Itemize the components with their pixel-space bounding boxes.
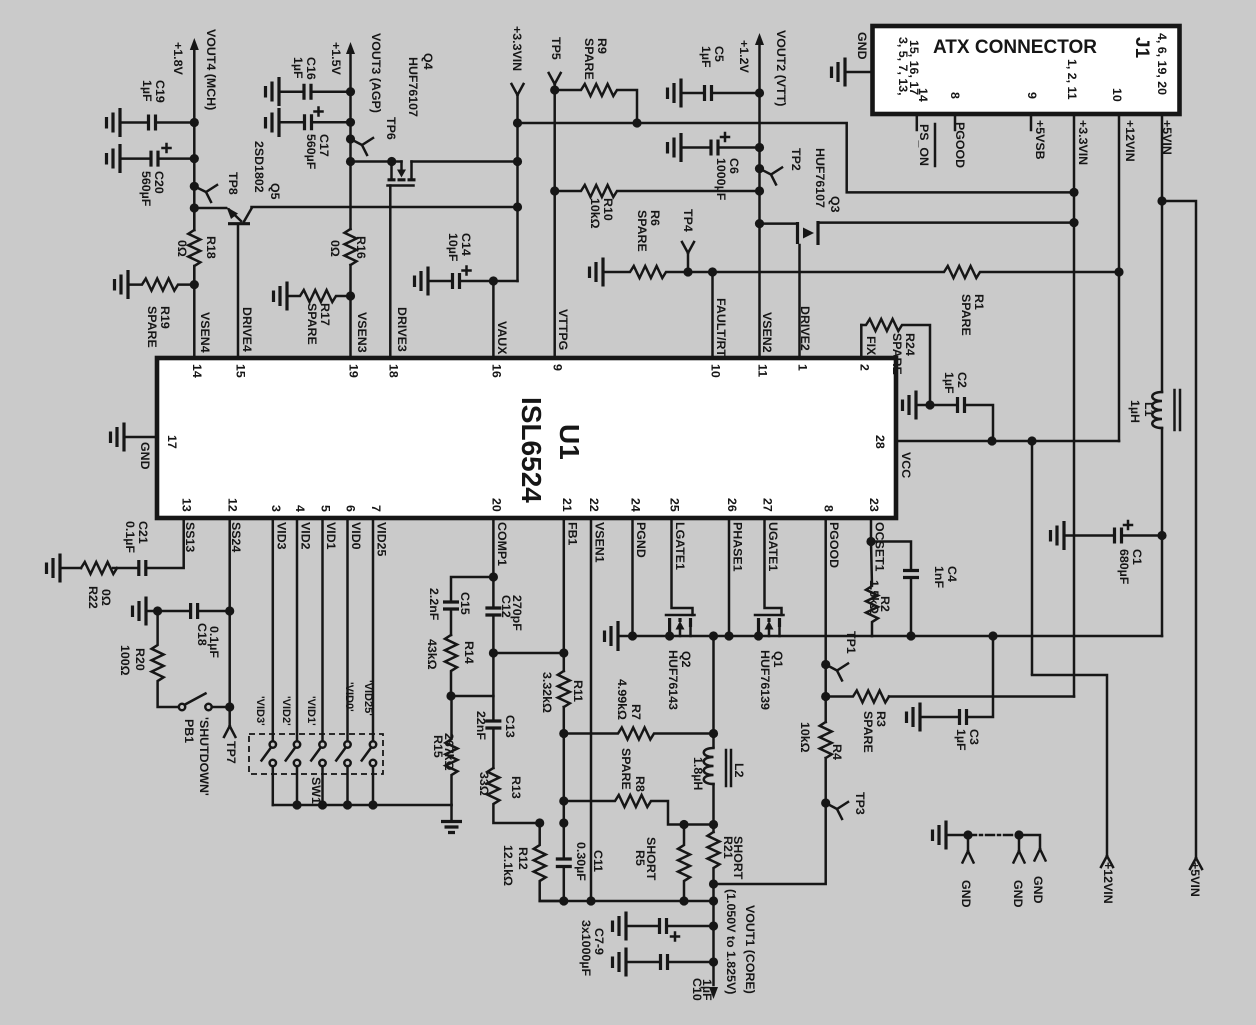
svg-text:VSEN1: VSEN1 (593, 522, 607, 563)
svg-text:R16: R16 (354, 236, 368, 259)
svg-text:VAUX: VAUX (495, 321, 509, 355)
connector GND pigtail 3 (1019, 835, 1046, 861)
svg-text:2.2nF: 2.2nF (427, 588, 441, 621)
svg-text:SS13: SS13 (183, 522, 197, 552)
svg-text:SHORT: SHORT (731, 836, 745, 880)
ground at C18 node (153, 606, 162, 615)
resistor R13 (487, 768, 539, 823)
svg-text:R8: R8 (633, 776, 647, 792)
ground at C14 (415, 267, 429, 296)
resistor R10 (550, 186, 559, 195)
wire +5VIN rail below L1 (1161, 428, 1164, 636)
svg-text:VOUT1 (CORE): VOUT1 (CORE) (743, 905, 757, 994)
svg-text:TP5: TP5 (549, 37, 563, 60)
ground at R22 (47, 554, 61, 583)
svg-text:Q3: Q3 (828, 196, 842, 213)
svg-text:VOUT3 (AGP): VOUT3 (AGP) (369, 33, 383, 113)
capacitor C2 (930, 404, 955, 407)
switch PB1 SHUTDOWN (179, 704, 185, 710)
capacitor C16 (279, 90, 302, 93)
ground at C17 (266, 108, 280, 137)
svg-text:C18: C18 (195, 623, 209, 646)
inductor L1 (1152, 390, 1180, 430)
wire PGOOD pin 8 net (714, 518, 826, 884)
svg-text:SW1: SW1 (309, 777, 323, 804)
svg-text:LGATE1: LGATE1 (673, 522, 687, 570)
svg-text:GND: GND (855, 32, 869, 60)
wire VCC pin 28 to +12VIN rail (896, 440, 1119, 443)
resistor R19 (128, 279, 194, 291)
svg-text:TP4: TP4 (681, 209, 695, 232)
svg-text:15: 15 (234, 364, 248, 378)
svg-text:4.99kΩ: 4.99kΩ (615, 679, 629, 720)
ground at C19 (107, 108, 121, 137)
resistor R21 (708, 832, 720, 901)
svg-text:33Ω: 33Ω (477, 772, 491, 796)
wire +3.3VIN jog to ATX rail (518, 123, 1075, 192)
resistor R7 (559, 729, 568, 738)
svg-text:PGOOD: PGOOD (827, 522, 841, 568)
svg-text:ATX CONNECTOR: ATX CONNECTOR (933, 37, 1097, 58)
svg-text:VOUT4 (MCH): VOUT4 (MCH) (204, 29, 218, 110)
svg-text:+1.5V: +1.5V (329, 42, 343, 75)
svg-text:4, 6, 19, 20: 4, 6, 19, 20 (1155, 33, 1169, 95)
wire +5VIN right edge branch (1162, 201, 1196, 858)
resistor R3 (821, 692, 830, 701)
svg-text:SS24: SS24 (229, 522, 243, 552)
svg-text:SPARE: SPARE (619, 748, 633, 790)
svg-text:HUF76107: HUF76107 (406, 57, 420, 117)
inductor L2 (704, 748, 731, 786)
svg-text:+5VIN: +5VIN (1188, 862, 1202, 897)
svg-text:R7: R7 (629, 704, 643, 720)
ground at R19 (115, 270, 129, 299)
capacitor C21 (139, 560, 146, 576)
node +3.3VIN input chevron (512, 84, 524, 95)
svg-text:FIX: FIX (864, 336, 878, 356)
svg-text:'VID1': 'VID1' (305, 696, 317, 726)
svg-text:18: 18 (386, 364, 400, 378)
svg-text:PB1: PB1 (182, 719, 196, 743)
ground at C10 (613, 948, 627, 977)
resistor R17 (287, 290, 351, 302)
capacitor C7-9 (polarized) (626, 925, 657, 928)
svg-text:C11: C11 (591, 850, 605, 872)
svg-text:28: 28 (873, 435, 887, 449)
svg-text:HUF76107: HUF76107 (813, 148, 827, 208)
capacitor C19 (120, 121, 146, 124)
svg-text:2: 2 (857, 364, 871, 371)
svg-text:5: 5 (319, 505, 333, 512)
svg-text:'SHUTDOWN': 'SHUTDOWN' (197, 717, 211, 796)
node VOUT2 output arrow (755, 33, 764, 45)
svg-text:0.1µF: 0.1µF (207, 626, 221, 658)
node +5VIN exit chevron (1190, 858, 1202, 869)
test point TP8 (190, 182, 199, 191)
capacitor C12 (492, 577, 495, 606)
wire C14 node to +3.3VIN rail (493, 280, 517, 283)
wire PGND pin 24 stub (631, 518, 634, 636)
svg-text:+12VIN: +12VIN (1101, 862, 1115, 904)
resistor R15 (446, 696, 458, 805)
svg-text:1µF: 1µF (700, 979, 714, 1001)
svg-text:FB1: FB1 (565, 522, 579, 546)
resistor R12 (535, 818, 544, 827)
capacitor C14 (polarized) (428, 280, 450, 283)
capacitor C4 (871, 542, 911, 569)
svg-text:Q1: Q1 (771, 651, 785, 668)
svg-text:L2: L2 (732, 763, 746, 778)
svg-text:4: 4 (293, 505, 307, 512)
svg-text:'VID3': 'VID3' (254, 696, 266, 726)
wire +3.3VIN left rail (516, 95, 519, 281)
svg-text:+3.3VIN: +3.3VIN (1076, 120, 1090, 165)
svg-text:100Ω: 100Ω (118, 645, 132, 676)
wire SS24 pin 12 vertical (228, 518, 231, 726)
capacitor C10 (626, 961, 658, 964)
svg-text:R12: R12 (516, 847, 530, 870)
resistor R2 (866, 542, 878, 637)
svg-text:7: 7 (369, 505, 383, 512)
svg-text:8: 8 (948, 92, 962, 99)
J1 pin 9 stub +5VSB (1030, 114, 1033, 130)
capacitor C18 (225, 606, 234, 615)
wire VID bus (273, 804, 452, 807)
capacitor C11 (559, 818, 568, 827)
test point TP6 (346, 134, 355, 143)
wire +3.3VIN ATX rail down (1073, 114, 1076, 697)
svg-text:VCC: VCC (899, 452, 913, 478)
svg-text:19: 19 (347, 364, 361, 378)
svg-text:0Ω: 0Ω (328, 240, 342, 257)
resistor R1 (713, 266, 1120, 278)
node VOUT4 output arrow (190, 38, 199, 50)
ground at C16 (266, 77, 280, 106)
svg-text:12.1kΩ: 12.1kΩ (501, 845, 515, 886)
svg-text:FAULT/RT: FAULT/RT (714, 298, 728, 357)
wire J1 GND stub (845, 71, 873, 74)
svg-text:PHASE1: PHASE1 (731, 522, 745, 572)
svg-text:TP3: TP3 (853, 792, 867, 815)
test point TP1 (821, 660, 830, 669)
svg-text:OCSET1: OCSET1 (873, 522, 887, 572)
wire VID2 pin 4 vertical (296, 518, 299, 741)
node VOUT3 output arrow (346, 42, 355, 54)
wire +5VIN to lower bus (872, 635, 1162, 638)
wire VOUT1 sense rail (540, 900, 714, 903)
ground at R6 (590, 258, 604, 287)
connector GND pigtail 1 (963, 835, 974, 863)
J1 pin 14 stub PS_ON (916, 114, 919, 130)
wire SS13 pin 13 stub (146, 518, 184, 568)
wire FAULT/RT to pin 10 (711, 272, 714, 358)
svg-text:14: 14 (916, 88, 930, 102)
resistor R11 (558, 671, 570, 707)
svg-text:ISL6524: ISL6524 (516, 397, 547, 503)
J1 pin 8 stub PGOOD (954, 114, 957, 130)
ground pigtail group (933, 821, 947, 850)
ground at C20 (107, 144, 121, 173)
wire COMP1 to FB1 (493, 652, 563, 655)
svg-text:+5VSB: +5VSB (1033, 120, 1047, 160)
wire VID3 pin 3 vertical (272, 518, 275, 741)
test point TP4 chevron (682, 242, 694, 272)
wire VSEN1 pin 22 vertical (590, 518, 593, 901)
svg-text:J1: J1 (1131, 37, 1152, 59)
svg-text:+3.3VIN: +3.3VIN (510, 26, 524, 71)
test point TP7 chevron (224, 726, 235, 737)
svg-text:C13: C13 (503, 715, 517, 738)
capacitor C13 (492, 653, 495, 719)
test point TP2 (755, 164, 764, 173)
svg-text:VSEN4: VSEN4 (198, 312, 212, 353)
wire VID25 pin 7 vertical (372, 518, 375, 741)
svg-text:UGATE1: UGATE1 (766, 522, 780, 571)
svg-text:R11: R11 (571, 680, 585, 702)
capacitor C1 (polarized) (1157, 531, 1166, 540)
node +12VIN exit chevron (1101, 856, 1113, 867)
wire OCSET1 pin 23 stub (870, 518, 873, 542)
svg-text:10: 10 (1110, 88, 1124, 102)
capacitor C3 (988, 631, 997, 640)
svg-text:SHORT: SHORT (644, 837, 658, 881)
connector J1 ATX box (873, 26, 1180, 114)
wire VID0 pin 6 vertical (346, 518, 349, 741)
wire VOUT3 vertical to pin 19 (349, 52, 352, 358)
svg-text:GND: GND (959, 880, 973, 908)
svg-text:C191µF: C191µF (140, 80, 167, 103)
svg-text:1.5kΩ: 1.5kΩ (867, 580, 881, 614)
wire COMP1 pin 20 stub (492, 518, 495, 577)
wire FIX pin 2 stub (860, 325, 863, 358)
capacitor C6 (polarized) (681, 146, 709, 149)
svg-text:R18: R18 (204, 236, 218, 259)
svg-text:Q5: Q5 (268, 183, 282, 200)
test point TP5 chevron (549, 73, 561, 84)
svg-text:VSEN3: VSEN3 (355, 312, 369, 353)
wire R14 bottom to C13 line (451, 695, 493, 698)
switch group SW1 dashed box (249, 734, 383, 774)
svg-text:9: 9 (551, 364, 565, 371)
transistor Q5 2SD1802 (194, 207, 251, 358)
svg-text:24: 24 (629, 498, 643, 512)
wire +5VIN rail from J1 (1161, 114, 1164, 392)
svg-text:11: 11 (756, 364, 770, 377)
wire VOUT2 vertical to pin 11 (758, 43, 761, 358)
connector GND pigtail 2 (1014, 835, 1025, 863)
wire FB1 pin 21 vertical (563, 518, 566, 901)
svg-text:TP2: TP2 (789, 148, 803, 171)
svg-text:22: 22 (587, 498, 601, 512)
svg-text:+1.8V: +1.8V (171, 42, 185, 75)
svg-text:DRIVE4: DRIVE4 (240, 307, 254, 352)
svg-text:VID3: VID3 (274, 522, 288, 550)
resistor R20 (152, 611, 179, 707)
wire +12VIN exit from VCC node (1031, 441, 1034, 675)
svg-text:8: 8 (822, 505, 836, 512)
wire PHASE node down to L2 (712, 636, 715, 748)
svg-text:1: 1 (796, 364, 810, 371)
svg-text:17: 17 (165, 435, 179, 449)
wire TP5/VTTPG to pin 9 (553, 84, 556, 358)
op-amp U1 ISL6524 IC body (157, 358, 896, 518)
svg-text:VID2: VID2 (299, 522, 313, 550)
resistor R9 (550, 85, 559, 94)
resistor R18 (188, 208, 200, 285)
svg-text:+1.2V: +1.2V (737, 40, 751, 73)
ground at VID bus (450, 805, 453, 820)
svg-text:'VID0': 'VID0' (343, 682, 355, 712)
svg-text:VTTPG: VTTPG (556, 309, 570, 350)
resistor R14 (445, 635, 457, 696)
svg-text:U1: U1 (554, 424, 585, 460)
svg-text:VOUT2 (VTT): VOUT2 (VTT) (774, 30, 788, 106)
wire VAUX to pin 16 (492, 281, 495, 358)
svg-text:PGND: PGND (634, 522, 648, 558)
wire VOUT1 node down (712, 901, 715, 985)
svg-text:L1: L1 (1142, 402, 1156, 417)
svg-text:TP7: TP7 (224, 741, 238, 764)
switch SW1-c VID1 (319, 741, 325, 747)
resistor R6 (603, 266, 713, 278)
svg-text:R14: R14 (462, 641, 476, 664)
svg-text:GND: GND (1011, 880, 1025, 908)
svg-text:(1.050V to 1.825V): (1.050V to 1.825V) (724, 889, 738, 994)
svg-text:0.30µF: 0.30µF (574, 842, 588, 881)
svg-text:R4: R4 (830, 744, 844, 760)
resistor R16 (345, 229, 357, 265)
resistor R8 (559, 796, 568, 805)
svg-text:13: 13 (180, 498, 194, 512)
svg-text:10: 10 (709, 364, 723, 378)
svg-text:3x1000µF: 3x1000µF (579, 920, 593, 976)
svg-text:'VID2': 'VID2' (280, 696, 292, 726)
svg-text:25: 25 (668, 498, 682, 512)
svg-text:26: 26 (725, 498, 739, 512)
svg-text:12: 12 (226, 498, 240, 512)
svg-text:6: 6 (344, 505, 358, 512)
ground at C3 (907, 703, 921, 732)
svg-text:2SD1802: 2SD1802 (252, 141, 266, 193)
resistor R5 (678, 825, 690, 902)
svg-text:TP6: TP6 (384, 117, 398, 140)
test point TP3 (821, 798, 830, 807)
ground at C7-9 (613, 912, 627, 941)
svg-text:1µH: 1µH (1128, 400, 1142, 423)
svg-text:'VID25': 'VID25' (362, 680, 374, 716)
ground at R17 (274, 282, 288, 311)
svg-text:0Ω: 0Ω (175, 240, 189, 257)
svg-text:PS_ON: PS_ON (917, 124, 931, 166)
svg-text:HUF76143: HUF76143 (666, 650, 680, 710)
svg-text:1, 2, 11: 1, 2, 11 (1065, 59, 1079, 100)
svg-text:PGOOD: PGOOD (953, 122, 967, 168)
svg-text:C15: C15 (458, 592, 472, 615)
svg-text:VID1: VID1 (324, 522, 338, 550)
wire PHASE1 pin 26 stub (728, 518, 731, 636)
ground at C6 (668, 133, 682, 162)
svg-text:14: 14 (190, 364, 204, 378)
wire Q5 collector to +3.3VIN rail (252, 206, 518, 209)
svg-text:HUF76139: HUF76139 (758, 650, 772, 710)
svg-text:GND: GND (138, 442, 152, 470)
capacitor C17 (polarized) (279, 121, 302, 124)
svg-text:R20: R20 (133, 648, 147, 671)
capacitor C20 (polarized) (120, 157, 149, 160)
resistor R4 (820, 722, 832, 758)
svg-text:1.8µH: 1.8µH (691, 757, 705, 790)
svg-text:+12VIN: +12VIN (1123, 120, 1137, 162)
switch SW1-a VID3 (270, 741, 276, 747)
resistor R22 (81, 562, 117, 574)
svg-text:TP8: TP8 (226, 172, 240, 195)
switch SW1-b VID2 (294, 741, 300, 747)
svg-text:R13: R13 (509, 776, 523, 799)
transistor Q4 HUF76107 (346, 157, 518, 358)
transistor Q1 HUF76139 (755, 518, 872, 636)
svg-text:VID25: VID25 (375, 522, 389, 557)
svg-text:3.32kΩ: 3.32kΩ (540, 672, 554, 713)
svg-text:DRIVE3: DRIVE3 (395, 307, 409, 352)
svg-text:GND: GND (1031, 876, 1045, 904)
capacitor C5 (681, 92, 702, 95)
svg-text:10kΩ: 10kΩ (798, 722, 812, 753)
svg-text:27: 27 (761, 498, 775, 512)
node VOUT1 output arrow (709, 987, 718, 999)
svg-text:Q2: Q2 (679, 651, 693, 668)
ground at PGND (618, 635, 633, 638)
svg-text:23: 23 (867, 498, 881, 512)
svg-text:43kΩ: 43kΩ (425, 639, 439, 670)
ground at C5 (668, 79, 682, 108)
switch SW1-e VID25 (370, 741, 376, 747)
switch SW1-d VID0 (344, 741, 350, 747)
svg-text:3: 3 (269, 505, 283, 512)
ground at J1 GND (832, 58, 846, 87)
svg-text:COMP1: COMP1 (495, 522, 509, 566)
ground at U1 pin 17 (124, 436, 157, 439)
svg-text:VID0: VID0 (349, 522, 363, 550)
svg-text:Q4: Q4 (421, 53, 435, 70)
svg-text:TP1: TP1 (844, 631, 858, 654)
svg-text:22nF: 22nF (474, 711, 488, 740)
transistor Q2 HUF76143 (633, 518, 759, 636)
svg-text:21: 21 (560, 498, 574, 512)
wire +12VIN rail from J1 pin 10 (1118, 114, 1121, 441)
wire VID1 pin 5 vertical (321, 518, 324, 741)
capacitor C15 (451, 577, 493, 600)
resistor R24 (861, 319, 930, 405)
wire VOUT4 vertical to pin 14 (193, 48, 196, 358)
svg-text:9: 9 (1025, 92, 1039, 99)
transistor Q3 HUF76107 (755, 219, 1074, 358)
svg-text:16: 16 (489, 364, 503, 378)
ground at C2 (903, 391, 917, 420)
svg-text:270pF: 270pF (510, 595, 524, 631)
svg-text:VSEN2: VSEN2 (760, 312, 774, 353)
ground at C1 (1051, 521, 1065, 550)
svg-text:R15: R15 (431, 735, 445, 758)
svg-text:C7-9: C7-9 (592, 928, 606, 955)
svg-text:C161µF: C161µF (291, 57, 318, 80)
svg-text:R22: R22 (86, 586, 100, 609)
svg-text:20: 20 (489, 498, 503, 512)
svg-text:15, 16, 17: 15, 16, 17 (907, 40, 921, 95)
svg-text:0Ω: 0Ω (99, 589, 113, 606)
